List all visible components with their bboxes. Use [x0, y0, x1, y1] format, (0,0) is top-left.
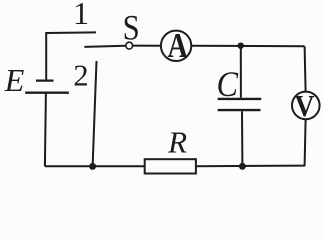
svg-text:C: C [216, 64, 239, 104]
svg-text:A: A [167, 26, 188, 65]
svg-text:R: R [167, 124, 187, 159]
svg-text:2: 2 [73, 58, 88, 92]
svg-text:V: V [295, 89, 315, 123]
svg-text:E: E [4, 62, 25, 98]
svg-text:1: 1 [73, 0, 89, 31]
svg-text:S: S [123, 8, 140, 48]
